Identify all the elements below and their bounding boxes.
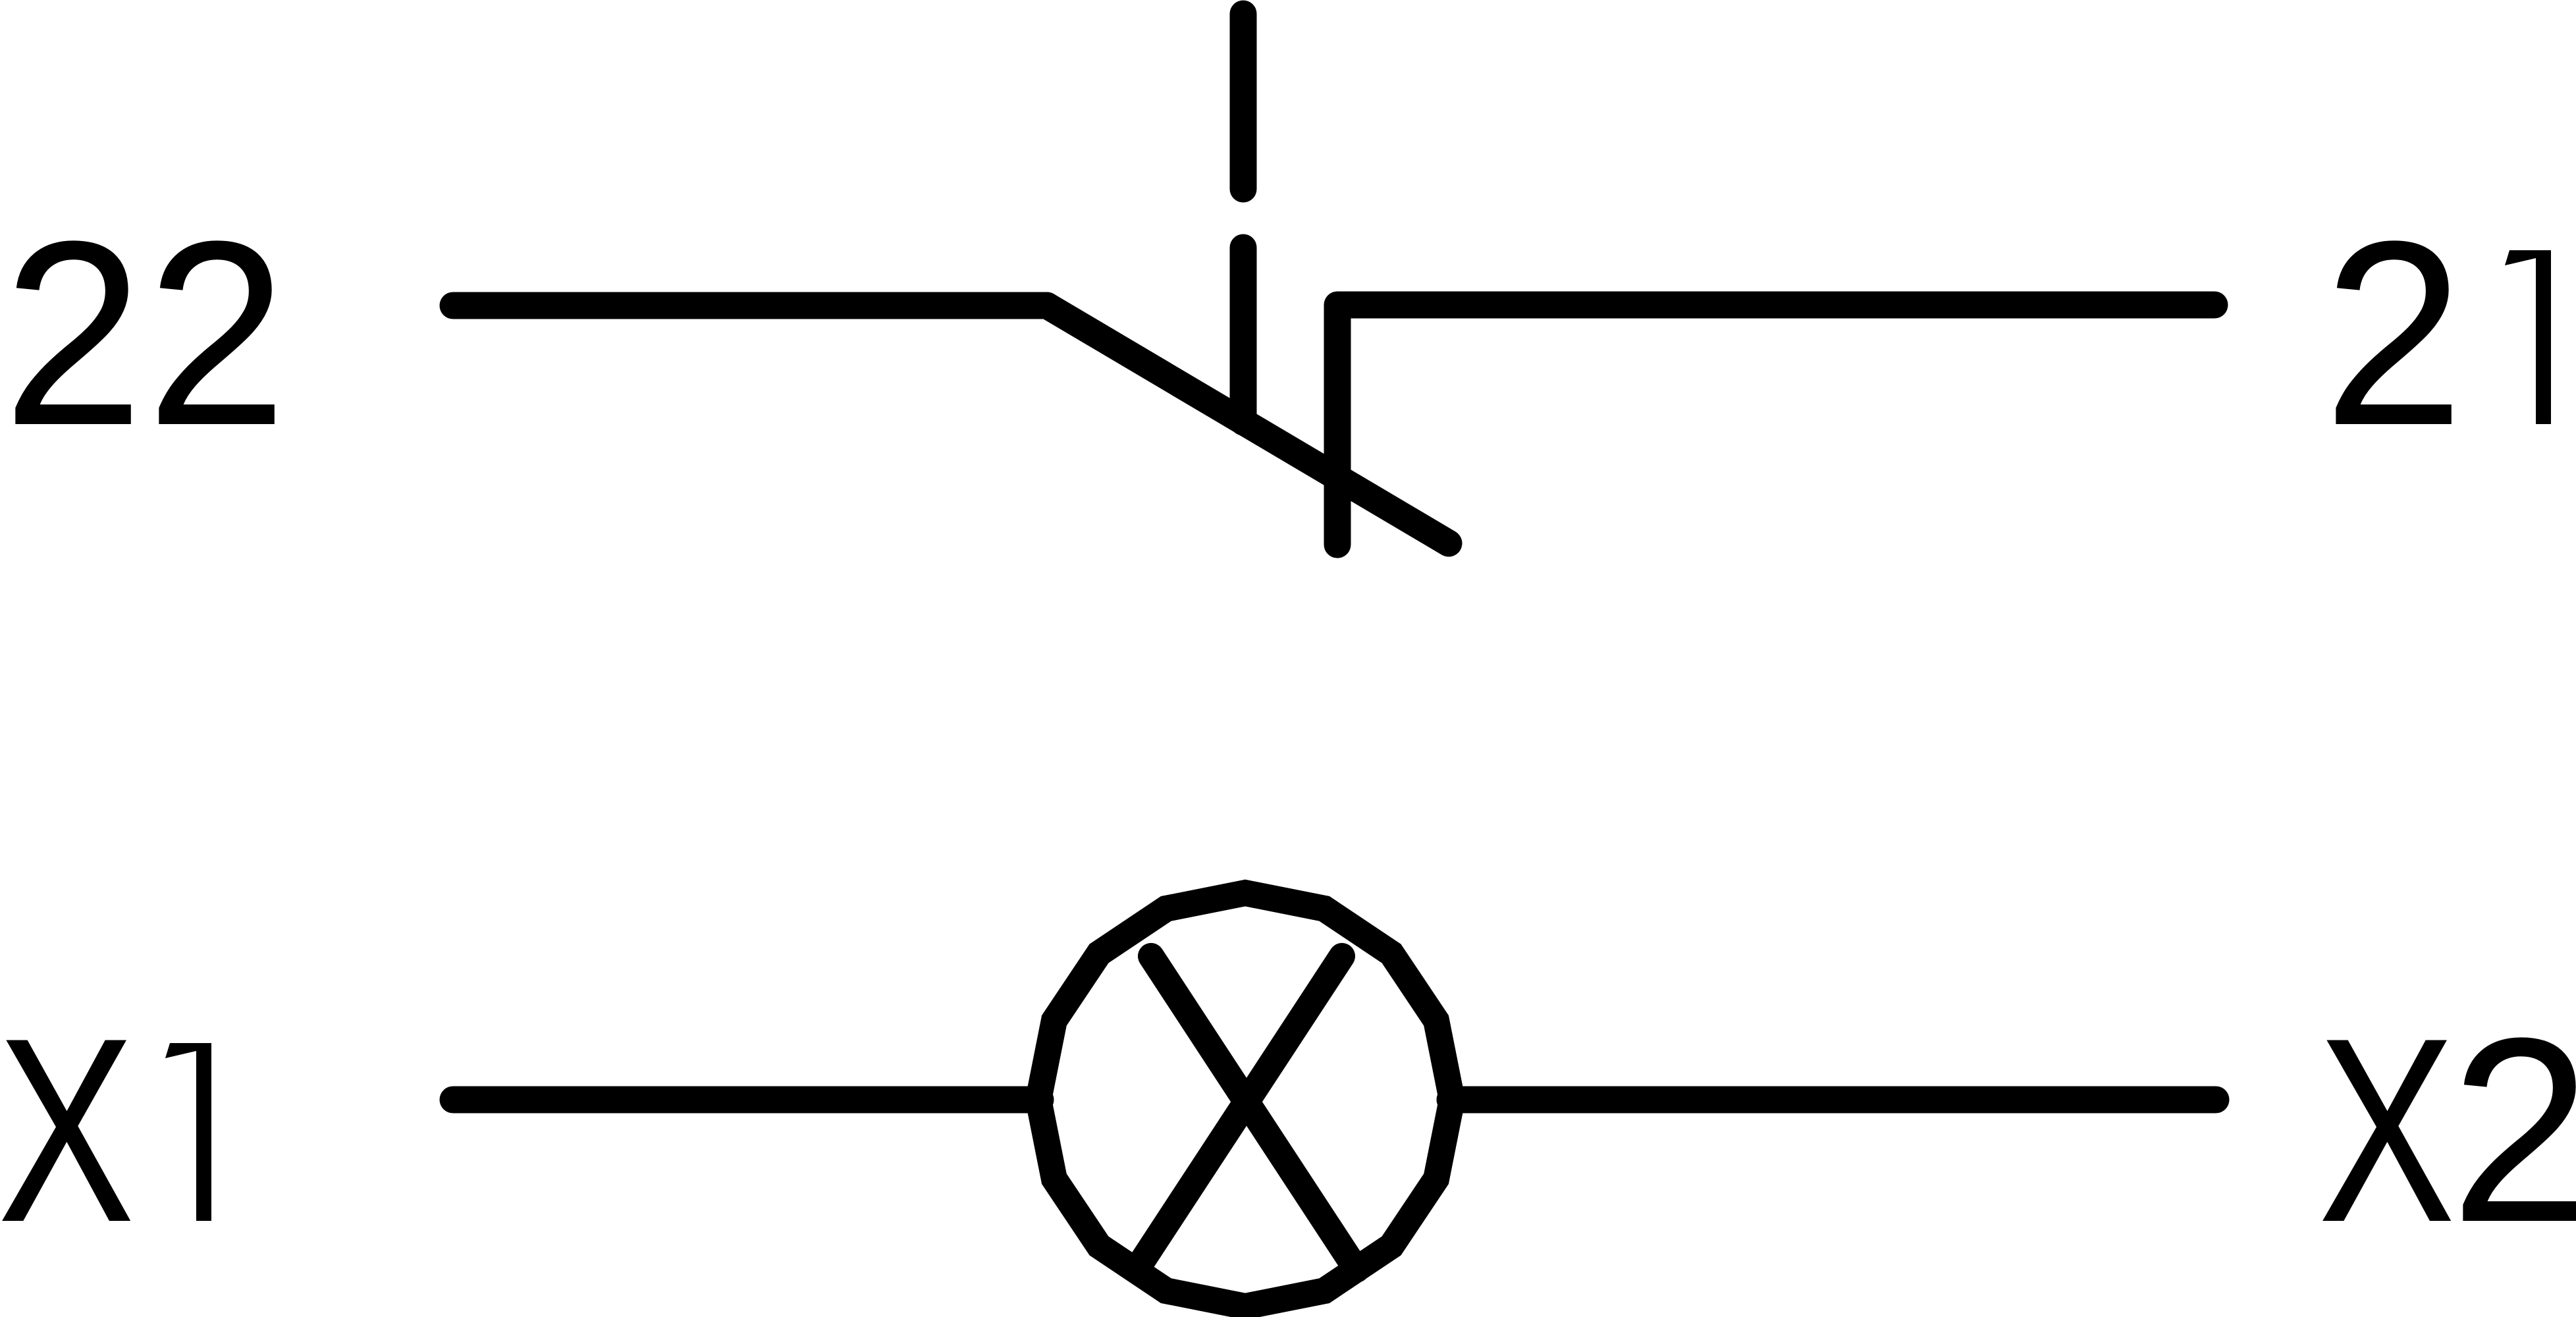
lamp body circle (16-gon) (1038, 893, 1452, 1306)
lamp X2 terminal label (2318, 982, 2576, 1277)
svg-text:2: 2 (146, 187, 287, 481)
wire: left lamp lead X1 (453, 1087, 1040, 1114)
lamp X stroke NE-SW (1137, 956, 1342, 1270)
svg-text:2: 2 (2450, 984, 2576, 1277)
actuator dashed line segment 1 (1230, 14, 1257, 189)
wire: right terminal 21 lead with contact stop bar (1337, 305, 2214, 545)
svg-text:X: X (2318, 982, 2455, 1276)
svg-text:2: 2 (3, 187, 144, 481)
lamp X1 terminal label (0, 982, 211, 1276)
wire: right lamp lead X2 (1450, 1087, 2216, 1114)
actuator dashed line segment 2 (1230, 248, 1257, 422)
wire: left terminal 22 lead (453, 292, 1047, 319)
terminal label 21 (2323, 187, 2551, 481)
terminal label 22 (3, 187, 287, 481)
svg-text:2: 2 (2323, 187, 2464, 481)
lamp X stroke NW-SE (1151, 956, 1356, 1270)
svg-text:X: X (0, 982, 135, 1276)
NC contact movable bar (diagonal) (1047, 306, 1449, 543)
